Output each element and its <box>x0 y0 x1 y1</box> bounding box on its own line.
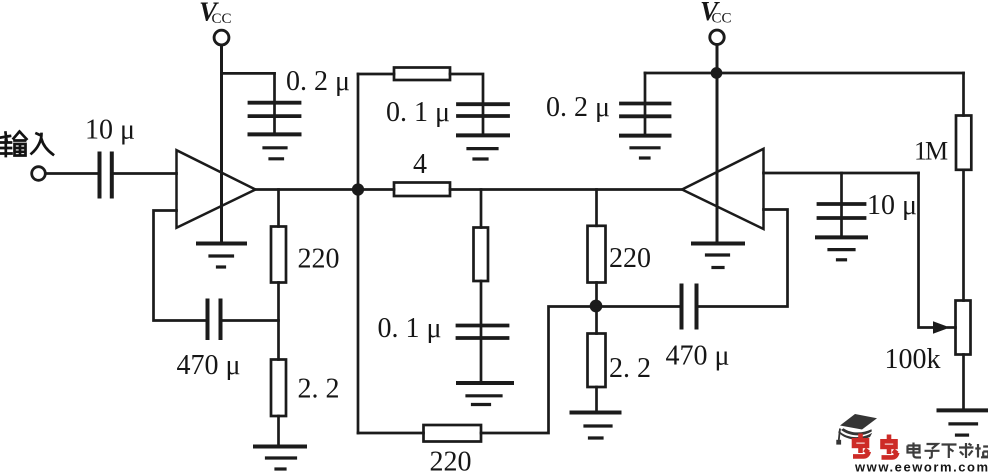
wire cap to U1 <box>112 172 177 175</box>
wire input to cap <box>46 172 100 175</box>
capacitor C5 0.1u <box>458 326 508 339</box>
wire R1 branch top lead <box>277 190 280 227</box>
wire C7 branch lead <box>644 73 647 136</box>
node B <box>591 301 601 311</box>
wire R3 to C4 <box>450 74 483 135</box>
svg-text:10 μ: 10 μ <box>867 190 917 221</box>
capacitor C1 10u (input coupling) <box>100 154 112 197</box>
svg-text:0. 1 μ: 0. 1 μ <box>378 313 442 344</box>
wire node B to C6 <box>596 305 680 308</box>
svg-text:100k: 100k <box>885 344 941 375</box>
wire R1 to R2 lead <box>277 283 280 360</box>
resistor R6 220 (bottom) <box>424 425 482 442</box>
svg-text:CC: CC <box>712 11 732 27</box>
wire R8 to ground <box>595 387 598 413</box>
输入 label <box>0 132 53 157</box>
ground GND8 (C7) <box>621 136 670 158</box>
svg-text:10 μ: 10 μ <box>85 115 135 146</box>
capacitor C4 0.1u <box>458 104 508 116</box>
wire U2 input line <box>764 172 919 175</box>
resistor R1 220 <box>271 227 286 283</box>
svg-text:2. 2: 2. 2 <box>298 374 340 405</box>
resistor R5 (series, mid) <box>474 228 489 282</box>
wire R7 to node B <box>595 283 598 334</box>
wire VCC2 rail <box>645 72 964 75</box>
wire bottom rail right up to node B <box>481 307 596 434</box>
svg-text:0. 2 μ: 0. 2 μ <box>286 66 350 97</box>
wire 1M to pot <box>962 170 965 301</box>
wire bus to R3 <box>358 73 394 76</box>
wire R2 to ground <box>277 416 280 447</box>
svg-text:470 μ: 470 μ <box>177 350 241 381</box>
node A (main rail junction) <box>353 185 363 195</box>
wire C8 branch lead <box>840 173 843 237</box>
svg-text:0. 1 μ: 0. 1 μ <box>386 97 450 128</box>
op-amp U1 <box>177 150 256 228</box>
wire pot to ground <box>962 355 965 411</box>
ground GND3 (R2) <box>255 447 305 470</box>
wire to pot wiper <box>919 173 937 328</box>
svg-text:220: 220 <box>430 447 472 472</box>
svg-text:1M: 1M <box>914 137 948 166</box>
resistor R3 (series, top) <box>394 68 450 81</box>
svg-text:220: 220 <box>298 244 340 275</box>
wire vertical bus x358 <box>357 74 360 433</box>
capacitor C6 470u (right) <box>682 286 697 328</box>
resistor R8 2.2 <box>588 334 606 388</box>
wire VCC1 branch to C2 <box>222 72 275 75</box>
resistor R9 1M <box>956 116 971 170</box>
ground GND1 (below U1) <box>198 244 245 268</box>
ground GND10 (pot) <box>939 410 988 435</box>
ground GND6 (R8) <box>572 413 620 439</box>
potentiometer RP1 100k <box>956 301 971 355</box>
capacitor C3 470u <box>208 301 221 339</box>
resistor R2 2.2 <box>271 360 286 417</box>
svg-text:www.eeworm.com: www.eeworm.com <box>854 460 988 472</box>
op-amp U2 <box>682 149 764 229</box>
电子下载站 gray text <box>908 443 988 459</box>
Vcc terminal VCC2 <box>710 30 724 44</box>
wire VCC2 down through U2 to ground <box>716 45 719 244</box>
graduation cap crown <box>838 428 872 439</box>
wire main rail right of R4 <box>450 188 682 191</box>
wire mid branch lead <box>480 190 483 228</box>
input terminal J1 <box>32 167 46 181</box>
lead through C2 <box>273 73 276 134</box>
wire R7 branch <box>595 190 598 226</box>
svg-text:CC: CC <box>212 11 232 27</box>
wire bottom rail left <box>358 432 424 435</box>
tassel <box>839 429 840 441</box>
wire C3 to R1/R2 junction <box>222 319 279 322</box>
wire U1 feedback: inverting input to C3 <box>154 211 207 321</box>
svg-text:2. 2: 2. 2 <box>609 353 651 384</box>
graduation cap board <box>840 414 877 430</box>
svg-text:470 μ: 470 μ <box>666 341 730 372</box>
capacitor C2 0.2u <box>250 103 300 116</box>
resistor R4 4 <box>394 183 450 197</box>
虫 2 red <box>882 435 898 458</box>
wire U1 output main rail <box>256 188 395 191</box>
resistor R7 220 <box>588 226 606 283</box>
svg-text:4: 4 <box>413 149 427 180</box>
svg-text:220: 220 <box>609 243 651 274</box>
wire C6 to U2 feedback <box>699 210 788 307</box>
watermark logo (eeworm) <box>836 414 988 472</box>
ground GND5 (C5) <box>458 383 512 405</box>
wire R5 to C5 to ground lead <box>480 281 483 383</box>
ground GND4 (C4) <box>458 135 508 159</box>
Vcc terminal VCC1 <box>214 30 229 45</box>
node C (VCC2 rail) <box>712 69 721 78</box>
ground GND9 (below U2) <box>693 244 743 268</box>
wiper arrow <box>948 326 956 329</box>
ground GND2 (C2) <box>250 134 300 158</box>
svg-text:0. 2 μ: 0. 2 μ <box>546 92 610 123</box>
wire 1M top lead <box>962 73 965 116</box>
ground GND7 (C8) <box>817 237 866 259</box>
虫 1 red <box>853 434 869 457</box>
wire VCC1 down through U1 to ground <box>220 45 223 244</box>
capacitor C8 10u (right) <box>819 204 865 218</box>
capacitor C7 0.2u (right) <box>621 104 670 117</box>
